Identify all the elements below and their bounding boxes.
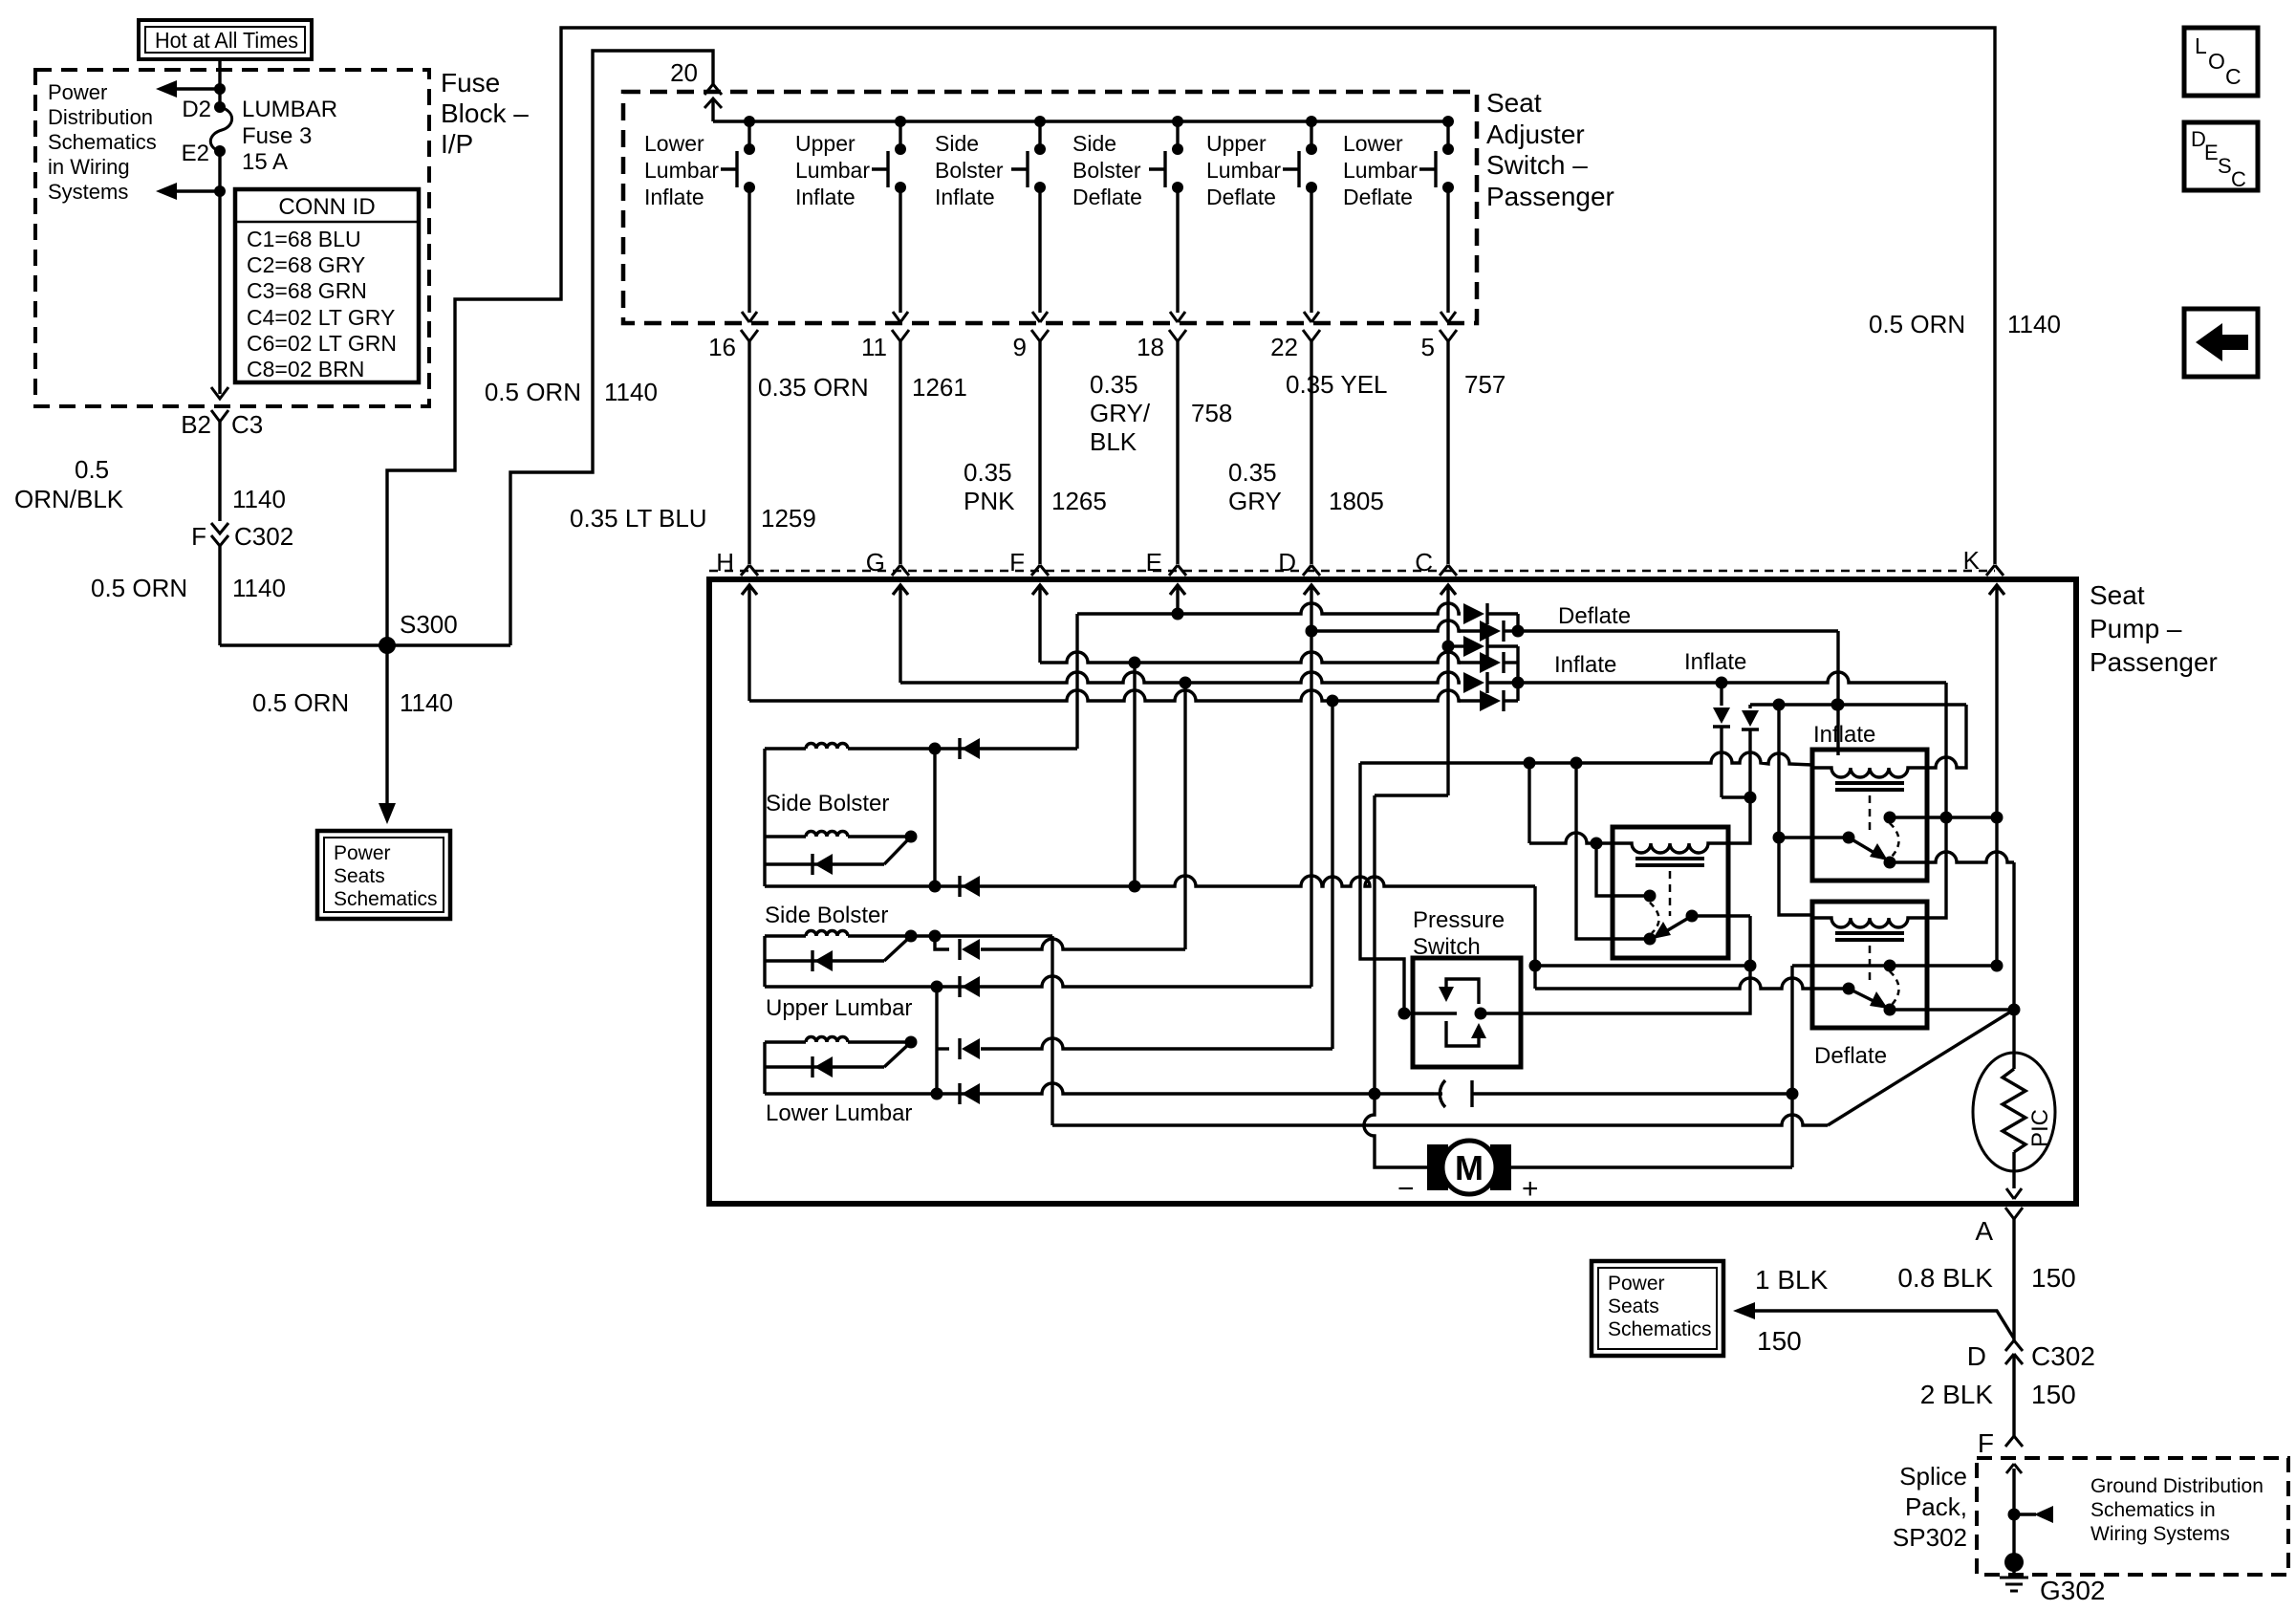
connector D C302 (1967, 1340, 2095, 1371)
svg-text:Lower: Lower (644, 131, 704, 156)
svg-text:Side: Side (1072, 131, 1116, 156)
svg-text:Inflate: Inflate (1813, 722, 1875, 748)
svg-text:Bolster: Bolster (1072, 158, 1141, 183)
wire side bolster A line (848, 747, 935, 750)
wire 2 BLK 150 (2012, 1354, 2015, 1436)
svg-text:Ground Distribution: Ground Distribution (2090, 1475, 2264, 1497)
svg-text:Systems: Systems (48, 180, 128, 204)
wire fuse output down (218, 151, 221, 394)
CONN ID table (235, 189, 419, 382)
wire arrow to power distribution (lower) (156, 183, 226, 200)
Hot at All Times box (139, 20, 312, 59)
box DESC (2184, 122, 2258, 191)
label Ground Distribution Schematics in Wiring Systems (2090, 1475, 2264, 1545)
label 0.5 ORN/BLK 1140 (14, 455, 286, 513)
svg-text:16: 16 (708, 333, 736, 361)
box LOC (2184, 28, 2258, 96)
svg-text:5: 5 (1421, 333, 1435, 361)
svg-text:Wiring Systems: Wiring Systems (2090, 1523, 2230, 1545)
pin 5 connector (1421, 330, 1457, 361)
pump entry arrow G (893, 585, 908, 683)
pump pin F connector (1009, 548, 1049, 577)
svg-text:E2: E2 (182, 141, 209, 166)
wire return to PIC line (1051, 936, 1053, 1125)
valve arm upper lumbar (884, 936, 911, 961)
pump entry arrow C (1440, 585, 1456, 795)
splice pack dashed box (1977, 1458, 2288, 1575)
pump pin G connector (866, 548, 909, 577)
svg-text:Power: Power (334, 842, 391, 864)
svg-text:Upper: Upper (1206, 131, 1267, 156)
svg-text:Seat: Seat (2090, 580, 2145, 610)
wire feed H to bladder (937, 1047, 949, 1050)
wire switch Upper Lumbar Deflate to pin 22 (1310, 187, 1312, 313)
diode pack diode 6 (1459, 699, 1480, 702)
pin 11 connector (861, 330, 909, 361)
svg-text:1140: 1140 (232, 574, 286, 602)
svg-text:−: − (1397, 1173, 1415, 1205)
svg-text:9: 9 (1013, 333, 1027, 361)
pump pin H connector (716, 548, 758, 577)
pump entry arrow K (1989, 585, 2004, 966)
svg-text:Seats: Seats (1608, 1295, 1659, 1317)
wire switch Upper Lumbar Inflate to pin 11 (899, 187, 901, 313)
svg-text:C3=68 GRN: C3=68 GRN (247, 278, 367, 303)
arrow down at fuse box exit (211, 387, 228, 399)
wire relay1 coil left (1529, 833, 1613, 843)
wire label 0.35 ORN 1261 (758, 373, 967, 402)
diode side bolster B (765, 862, 884, 865)
diode upper lumbar (765, 959, 884, 962)
wire 0.5 ORN/BLK 1140 (218, 422, 221, 521)
pump entry arrow D (1304, 585, 1319, 631)
wire pin 18 to pump pin E (1176, 341, 1179, 564)
connector F splice pack (1978, 1428, 2023, 1458)
wire switch Lower Lumbar Inflate to pin 16 (747, 187, 750, 313)
svg-text:H: H (716, 548, 734, 577)
diode inflate drop 2 (1748, 705, 1751, 708)
svg-text:15 A: 15 A (242, 149, 288, 175)
wire to relay 1 coil (1722, 795, 1750, 798)
valve arm lower lumbar (884, 1042, 911, 1067)
svg-text:1259: 1259 (761, 504, 816, 533)
svg-text:M: M (1455, 1148, 1484, 1187)
pressure switch (1398, 907, 1522, 1067)
label 0.5 ORN 1140 left (91, 574, 286, 602)
box back arrow (2184, 309, 2258, 377)
wire link side bolster A to return (933, 749, 936, 886)
svg-text:GRY: GRY (1228, 487, 1282, 515)
svg-text:D: D (1278, 548, 1296, 577)
svg-text:Inflate: Inflate (935, 185, 995, 209)
svg-text:1805: 1805 (1329, 487, 1384, 515)
wire lower lumbar return / motor line (765, 1083, 1434, 1094)
switch Upper Lumbar Inflate (795, 116, 906, 209)
svg-text:GRY/: GRY/ (1090, 399, 1151, 427)
svg-text:S: S (2218, 154, 2232, 178)
svg-text:0.35: 0.35 (1090, 370, 1138, 399)
svg-text:Distribution: Distribution (48, 105, 153, 129)
svg-text:0.5 ORN: 0.5 ORN (485, 378, 581, 406)
wire bladder bus left 1 (763, 749, 766, 886)
svg-text:D2: D2 (182, 97, 211, 122)
svg-text:C302: C302 (2031, 1341, 2095, 1371)
wire relay1 contact feed (1360, 752, 1812, 765)
switch Side Bolster Deflate (1072, 116, 1183, 209)
label Seat Adjuster Switch - Passenger (1486, 88, 1614, 211)
motor M (1397, 1141, 1539, 1205)
svg-text:20: 20 (670, 58, 698, 87)
wire C connector to motor minus (1375, 794, 1448, 796)
node inflate riser at relay2 NC (1940, 812, 1953, 824)
pin 16 connector (708, 330, 758, 361)
label Power Distribution Schematics in Wiring Systems (48, 80, 157, 204)
svg-text:C1=68 BLU: C1=68 BLU (247, 227, 361, 251)
label 2 BLK 150 (1920, 1380, 2076, 1409)
svg-text:1 BLK: 1 BLK (1755, 1265, 1829, 1295)
switch Side Bolster Inflate (935, 116, 1046, 209)
wire pressure switch to relay 3 contact (1521, 916, 1750, 1013)
svg-text:757: 757 (1464, 370, 1505, 399)
svg-text:C2=68 GRY: C2=68 GRY (247, 252, 365, 277)
diode pack diode 2 (1459, 629, 1480, 632)
node S300 (379, 610, 458, 654)
pin 18 connector (1137, 330, 1186, 361)
diode pack diode 1 (1463, 603, 1484, 624)
wire into splice pack (2006, 1464, 2022, 1562)
pin 20 connector (670, 58, 722, 95)
svg-text:Inflate: Inflate (644, 185, 704, 209)
svg-text:PNK: PNK (964, 487, 1015, 515)
switch bus wire (713, 120, 1448, 122)
svg-text:18: 18 (1137, 333, 1164, 361)
wire deflate line (1519, 629, 1838, 632)
connector F / C302 (191, 522, 293, 551)
label 0.8 BLK 150 (1897, 1263, 2075, 1293)
wire bladder bus left 3 (763, 1042, 766, 1094)
wire label 0.35 LT BLU 1259 (570, 504, 816, 533)
pump pin K connector (1963, 546, 2004, 576)
wire relay3 NC to K (1792, 964, 1997, 967)
svg-text:150: 150 (2031, 1380, 2076, 1409)
svg-text:C4=02 LT GRY: C4=02 LT GRY (247, 305, 395, 330)
wire label 0.35 PNK 1265 (964, 458, 1107, 515)
wire switch Lower Lumbar Deflate to pin 5 (1446, 187, 1449, 313)
box Power Seats Schematics (right) (1592, 1261, 1723, 1356)
svg-text:D: D (1967, 1341, 1986, 1371)
svg-text:1140: 1140 (2007, 310, 2061, 338)
junction splice with arrow (2008, 1506, 2054, 1523)
svg-text:Block –: Block – (441, 98, 529, 128)
label LUMBAR Fuse 3 15 A (242, 97, 337, 175)
svg-text:Bolster: Bolster (935, 158, 1004, 183)
svg-text:Hot at All Times: Hot at All Times (155, 28, 298, 53)
wire switch Side Bolster Deflate to pin 18 (1176, 187, 1179, 313)
switch Lower Lumbar Deflate (1343, 116, 1454, 209)
svg-text:Schematics: Schematics (1608, 1318, 1712, 1340)
svg-text:0.35: 0.35 (1228, 458, 1277, 487)
wire relay1 upper contact (1596, 843, 1650, 896)
svg-text:1140: 1140 (400, 688, 453, 717)
wire row H feed (to diode 5) (749, 690, 1461, 701)
pin 9 connector (1013, 330, 1049, 361)
svg-text:Passenger: Passenger (2090, 647, 2218, 677)
svg-text:C8=02 BRN: C8=02 BRN (247, 357, 364, 381)
svg-text:Pressure: Pressure (1413, 907, 1505, 933)
svg-text:Schematics: Schematics (334, 888, 438, 910)
svg-text:Deflate: Deflate (1072, 185, 1142, 209)
svg-text:0.35 YEL: 0.35 YEL (1286, 370, 1388, 399)
label 0.5 ORN 1140 (switch feed) (485, 378, 658, 406)
relay U2 inflate (1812, 722, 1927, 881)
wire relay2 NO to PIC (1890, 852, 2014, 862)
svg-text:BLK: BLK (1090, 427, 1137, 456)
label Seat Pump - Passenger (2090, 580, 2218, 677)
inductor side bolster B coil (765, 835, 806, 838)
svg-text:F: F (1978, 1428, 1994, 1458)
svg-text:Fuse: Fuse (441, 68, 500, 98)
fuse block dashed box Fuse Block I/P (35, 70, 429, 406)
svg-text:0.35 ORN: 0.35 ORN (758, 373, 869, 402)
pump entry arrow E (1170, 585, 1185, 614)
svg-text:SP302: SP302 (1893, 1523, 1967, 1552)
connector B2 / C3 (181, 410, 263, 442)
diode side bolster A (958, 738, 961, 759)
diode inflate drop 1 (1720, 683, 1722, 706)
svg-text:0.5 ORN: 0.5 ORN (252, 688, 349, 717)
svg-text:Fuse 3: Fuse 3 (242, 123, 312, 149)
pressure switch contact (1434, 1092, 1442, 1095)
wire row G feed (to diode 4) (900, 672, 1461, 683)
svg-text:C: C (2225, 64, 2242, 89)
resistor PIC (1973, 1010, 2055, 1199)
svg-text:Power: Power (1608, 1273, 1665, 1295)
svg-text:Deflate: Deflate (1814, 1043, 1887, 1069)
pin 22 connector (1270, 330, 1320, 361)
wire bladder bus left 2 (763, 936, 766, 987)
wire row E feed (to diode 1) (1172, 608, 1184, 620)
inductor upper lumbar coil (765, 934, 806, 937)
relay U1 center (1613, 827, 1728, 958)
wire pin 5 to pump pin C (1446, 341, 1449, 564)
svg-text:1265: 1265 (1051, 487, 1107, 515)
wire S300 down to Power Seats Schematics (379, 645, 396, 824)
svg-text:Splice: Splice (1899, 1462, 1967, 1491)
svg-text:0.5 ORN: 0.5 ORN (91, 574, 187, 602)
arrow pin 20 into switch (704, 98, 722, 121)
wire S300 up to switch pin 20 (510, 51, 713, 645)
svg-text:Side Bolster: Side Bolster (765, 903, 888, 928)
svg-text:150: 150 (1757, 1326, 1802, 1356)
wire relay1 contact to motor plus (1692, 914, 1750, 917)
wire label 0.5 ORN 1140 right (1869, 310, 2061, 338)
wire upper lumbar return (765, 976, 1311, 987)
svg-text:1140: 1140 (604, 378, 658, 406)
wire switch Side Bolster Inflate to pin 9 (1038, 187, 1041, 313)
svg-text:11: 11 (861, 333, 887, 361)
svg-text:CONN ID: CONN ID (278, 194, 375, 220)
svg-text:I/P: I/P (441, 129, 473, 159)
fuse F3 LUMBAR symbol (210, 101, 231, 157)
wire label 0.35 GRY 1805 (1228, 458, 1384, 515)
svg-text:+: + (1522, 1173, 1539, 1205)
diode pack diode 4 (1459, 661, 1480, 664)
wire pin 16 to pump pin H (747, 341, 750, 564)
svg-text:Passenger: Passenger (1486, 182, 1614, 211)
diode pack diode 5 (1463, 672, 1484, 693)
relay U3 deflate (1812, 902, 1927, 1069)
pump entry arrow H (742, 585, 757, 701)
wire pin 22 to pump pin D (1310, 341, 1312, 564)
splice S300 horizontal wire (220, 643, 510, 646)
wire side bolster return / pressure line (765, 876, 1535, 886)
pump pin E connector (1146, 548, 1186, 577)
svg-text:Lumbar: Lumbar (795, 158, 870, 183)
svg-text:0.8 BLK: 0.8 BLK (1897, 1263, 1993, 1293)
diode lower lumbar (765, 1065, 884, 1068)
svg-text:C302: C302 (234, 522, 293, 551)
diode pack diode 3 (1463, 636, 1484, 657)
pump entry arrow F (1032, 585, 1048, 663)
svg-text:Lumbar: Lumbar (1343, 158, 1418, 183)
svg-text:1261: 1261 (912, 373, 967, 402)
wire pin 9 to pump pin F (1038, 341, 1041, 564)
svg-text:758: 758 (1191, 399, 1232, 427)
svg-text:G: G (866, 548, 885, 577)
wire riser row D to upper lumbar return (1310, 631, 1312, 987)
svg-text:Pump –: Pump – (2090, 614, 2182, 643)
wire relay 2 coil right riser (1927, 705, 1966, 768)
wire 0.8 BLK 150 (2012, 1219, 2015, 1340)
wire inflate line (1519, 672, 1946, 683)
junction inflate diodes (1516, 646, 1519, 701)
switch Lower Lumbar Inflate (644, 116, 755, 209)
wire riser row E to side bolster A (1075, 614, 1078, 749)
switch Upper Lumbar Deflate (1206, 116, 1317, 209)
wire pump return line (1052, 1115, 1828, 1125)
svg-text:L: L (2195, 33, 2207, 58)
wire top rail 0.5 ORN 1140 from fuse block to K (387, 28, 1995, 645)
svg-text:Pack,: Pack, (1905, 1492, 1967, 1521)
svg-text:0.5 ORN: 0.5 ORN (1869, 310, 1965, 338)
svg-text:O: O (2208, 49, 2225, 74)
wire arrow to power distribution (top) (156, 80, 226, 98)
svg-text:Seat: Seat (1486, 88, 1542, 118)
wire label 0.35 YEL 757 (1286, 370, 1505, 399)
svg-text:B2: B2 (181, 410, 211, 439)
valve arm side bolster B (884, 837, 911, 864)
svg-text:Side: Side (935, 131, 979, 156)
svg-text:Deflate: Deflate (1343, 185, 1413, 209)
wire relay2 contact feed via riser (1779, 705, 1812, 915)
wire 0.5 ORN 1140 left (218, 546, 221, 645)
wire label 0.35 GRY/BLK 758 (1090, 370, 1232, 456)
wire branch 1 BLK 150 to power seats schematics (1733, 1302, 2014, 1339)
svg-text:Deflate: Deflate (1558, 603, 1631, 629)
svg-text:Side Bolster: Side Bolster (766, 791, 889, 816)
wire row F feed (to diode 3) (1040, 652, 1461, 663)
label Fuse Block - I/P (441, 68, 529, 159)
svg-text:Schematics: Schematics (48, 130, 157, 154)
svg-text:PIC: PIC (2027, 1109, 2053, 1147)
wire riser row F to side bolster return (1133, 663, 1136, 886)
svg-text:Lower: Lower (1343, 131, 1403, 156)
box Power Seats Schematics (left) (317, 831, 450, 919)
svg-text:0.35 LT BLU: 0.35 LT BLU (570, 504, 707, 533)
svg-text:1140: 1140 (232, 485, 286, 513)
wire pin 11 to pump pin G (899, 341, 901, 564)
svg-text:F: F (191, 522, 206, 551)
svg-text:0.35: 0.35 (964, 458, 1012, 487)
svg-text:C: C (2231, 167, 2246, 191)
svg-text:Lumbar: Lumbar (1206, 158, 1281, 183)
svg-text:Inflate: Inflate (1554, 652, 1616, 678)
label Splice Pack SP302 (1893, 1462, 1967, 1552)
svg-text:150: 150 (2031, 1263, 2076, 1293)
svg-text:C3: C3 (231, 410, 263, 439)
wire from Hot at All Times into fuse block (218, 59, 221, 105)
wire relay coil link line (1750, 703, 1966, 706)
connector dashed line switch to pump (709, 570, 1995, 573)
svg-text:LUMBAR: LUMBAR (242, 97, 337, 122)
svg-text:Switch –: Switch – (1486, 150, 1588, 180)
seat adjuster switch dashed box (623, 92, 1477, 323)
connector A (1975, 1208, 2023, 1246)
svg-text:E: E (2204, 141, 2219, 164)
svg-text:G302: G302 (2040, 1576, 2106, 1605)
svg-text:Inflate: Inflate (1684, 649, 1746, 675)
svg-text:Lumbar: Lumbar (644, 158, 719, 183)
svg-text:Power: Power (48, 80, 107, 104)
inductor lower lumbar coil (765, 1040, 806, 1043)
svg-text:2 BLK: 2 BLK (1920, 1380, 1994, 1409)
svg-text:E: E (1146, 548, 1162, 577)
svg-text:0.5: 0.5 (75, 455, 109, 484)
svg-text:Lower Lumbar: Lower Lumbar (766, 1100, 912, 1126)
svg-text:Deflate: Deflate (1206, 185, 1276, 209)
ground G302 (2000, 1553, 2106, 1605)
svg-text:Seats: Seats (334, 865, 385, 887)
wire link upper to lower lumbar return (935, 987, 938, 1094)
junction deflate diodes (1516, 614, 1519, 631)
wire relay2 NC to K (1890, 816, 1997, 818)
label 1 BLK 150 (1755, 1265, 1829, 1356)
svg-text:22: 22 (1270, 333, 1298, 361)
inductor side bolster A coil (765, 747, 806, 750)
svg-text:Adjuster: Adjuster (1486, 120, 1585, 149)
svg-text:S300: S300 (400, 610, 458, 639)
label 0.5 ORN 1140 (S300 drop) (252, 688, 453, 717)
pump pin D connector (1278, 548, 1320, 577)
wire feed G to bladder (935, 936, 949, 949)
wire upper lumbar coil return (911, 934, 1052, 937)
wire relay3 NO to PIC (1890, 1008, 2014, 1011)
pump pin C connector (1415, 548, 1457, 577)
seat pump box (709, 579, 2076, 1204)
svg-text:ORN/BLK: ORN/BLK (14, 485, 124, 513)
svg-text:C: C (1415, 548, 1433, 577)
wire motor plus (1511, 1165, 1792, 1168)
svg-text:A: A (1975, 1216, 1993, 1246)
node C tap to diode 3 (1442, 641, 1455, 653)
svg-text:F: F (1009, 548, 1025, 577)
svg-text:Inflate: Inflate (795, 185, 856, 209)
wire row D feed (to diode 2) (1306, 625, 1318, 638)
svg-text:C6=02 LT GRN: C6=02 LT GRN (247, 331, 397, 356)
svg-text:in Wiring: in Wiring (48, 155, 130, 179)
wire diagonal return (1828, 1010, 2014, 1125)
svg-text:Upper Lumbar: Upper Lumbar (766, 995, 912, 1021)
